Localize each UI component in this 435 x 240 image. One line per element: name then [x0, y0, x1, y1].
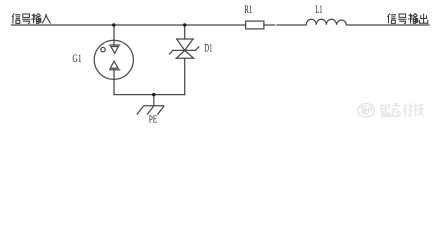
G1 bottom electrode bar	[109, 69, 120, 71]
junction node PE/bottom rail	[152, 93, 155, 96]
D1 bottom triangle	[176, 51, 193, 59]
wire D1 top lead	[184, 25, 186, 39]
node label 信号输出 (hand-drawn glyphs)	[388, 13, 428, 23]
resistor R1	[246, 21, 264, 29]
svg-text:PE: PE	[149, 115, 158, 126]
svg-text:G1: G1	[72, 53, 81, 65]
wire D1 bottom lead	[184, 58, 186, 94]
wire G1 bottom lead	[113, 70, 115, 95]
gas discharge tube G1	[94, 40, 133, 79]
D1 middle bar with zener wings	[169, 46, 199, 54]
wire gap to L1	[277, 24, 306, 26]
inductor L1	[306, 19, 346, 25]
G1 bottom triangle	[110, 61, 118, 68]
wire R1 to gap	[264, 24, 275, 26]
D1 top bar	[176, 38, 194, 40]
svg-text:R1: R1	[244, 4, 252, 16]
node label 信号输入 (hand-drawn glyphs)	[12, 13, 51, 23]
G1 top triangle	[111, 47, 119, 54]
svg-text:D1: D1	[204, 42, 212, 54]
wire PE stub	[153, 95, 155, 106]
wire input segment	[12, 24, 246, 26]
TVS diode D1	[169, 39, 199, 58]
G1 top electrode bar	[109, 44, 120, 46]
svg-text:L1: L1	[315, 4, 322, 16]
watermark logo	[358, 104, 374, 118]
watermark text 昭远科技	[381, 103, 424, 116]
junction node D1/top wire	[183, 23, 186, 26]
wire bottom rail	[114, 94, 185, 96]
wire L1 to output	[347, 24, 430, 26]
wire G1 top lead	[113, 25, 115, 45]
G1 inner small circle	[101, 47, 105, 51]
PE ground symbol	[137, 106, 164, 115]
junction node G1/top wire	[112, 23, 115, 26]
D1 top triangle	[177, 39, 193, 50]
